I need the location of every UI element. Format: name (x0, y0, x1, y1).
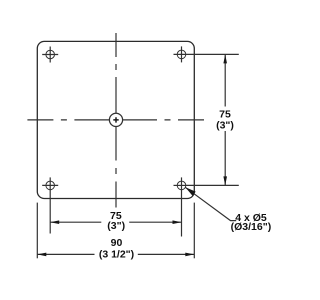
centerline horizontal right (123, 119, 204, 121)
hole TL circle (46, 50, 55, 59)
leader arrowhead (185, 187, 195, 196)
dimension line horizontal 90 right segment (138, 253, 195, 255)
center hole plus mark (113, 117, 118, 122)
leader line to hole BR (185, 187, 236, 220)
extension line below plate left edge (36, 203, 38, 259)
center hole circle (109, 113, 122, 126)
svg-text:(3"): (3") (107, 220, 125, 232)
extension line below hole BL (49, 177, 51, 233)
arrowhead right (75 horizontal) (173, 220, 182, 224)
plate outline (37, 41, 194, 198)
svg-text:(3"): (3") (216, 119, 234, 131)
dimension line horizontal 75 left segment (50, 221, 101, 223)
arrowhead left (75 horizontal) (50, 220, 59, 224)
hole BL circle (46, 181, 55, 190)
svg-text:(Ø3/16"): (Ø3/16") (231, 221, 272, 233)
dimension line vertical 75 upper segment (224, 54, 226, 106)
centerline horizontal left (27, 119, 109, 121)
hole BR circle (177, 181, 186, 190)
hole BR crosshair (174, 184, 186, 186)
hole TR circle (177, 50, 186, 59)
arrowhead down (75 vertical, bottom) (223, 176, 227, 185)
extension line below hole BR (181, 177, 183, 236)
arrowhead right (90) (185, 253, 194, 257)
svg-text:(3 1/2"): (3 1/2") (99, 249, 134, 261)
extension line from hole BR (horizontal) (186, 184, 239, 186)
dimension line horizontal 90 left segment (37, 253, 94, 255)
hole TR crosshair (181, 46, 183, 62)
extension line below plate right edge (193, 203, 195, 259)
extension line from hole TR (top, horizontal) (174, 53, 239, 55)
centerline vertical bottom (115, 127, 117, 208)
hole TL crosshair (42, 47, 58, 63)
dimension line vertical 75 lower segment (224, 131, 226, 185)
dimension line horizontal 75 right segment (129, 221, 181, 223)
arrowhead up (75 vertical, top) (223, 54, 227, 63)
arrowhead left (90) (37, 253, 46, 257)
svg-text:90: 90 (111, 237, 123, 249)
hole BL crosshair (42, 184, 58, 186)
centerline vertical top (115, 33, 117, 113)
